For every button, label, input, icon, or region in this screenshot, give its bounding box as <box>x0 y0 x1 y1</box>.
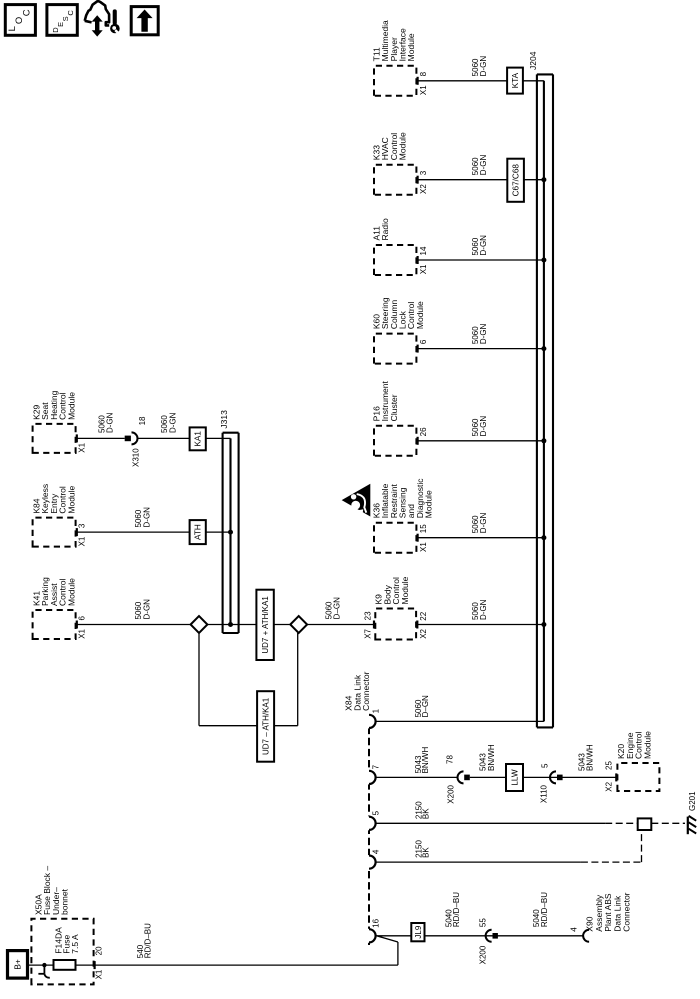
svg-text:X1: X1 <box>78 628 87 638</box>
svg-text:ATH: ATH <box>194 524 203 540</box>
svg-text:X2: X2 <box>419 184 428 194</box>
svg-text:BK: BK <box>422 847 431 858</box>
svg-text:18: 18 <box>138 416 147 425</box>
svg-text:X200: X200 <box>447 784 456 803</box>
svg-text:Module: Module <box>415 301 425 329</box>
svg-text:15: 15 <box>419 524 428 533</box>
svg-text:BN/WH: BN/WH <box>586 744 595 771</box>
svg-text:BN/WH: BN/WH <box>421 747 430 774</box>
svg-text:X1: X1 <box>78 536 87 546</box>
svg-text:D-GN: D-GN <box>479 323 488 344</box>
svg-text:C67/C68: C67/C68 <box>512 164 521 197</box>
svg-text:X2: X2 <box>605 781 614 791</box>
svg-text:D-GN: D-GN <box>479 235 488 256</box>
svg-text:D-GN: D-GN <box>479 155 488 176</box>
svg-text:X110: X110 <box>540 784 549 803</box>
svg-text:KTA: KTA <box>511 72 520 88</box>
svg-text:B+: B+ <box>13 959 23 970</box>
svg-text:4: 4 <box>570 927 579 932</box>
svg-text:KA1: KA1 <box>194 431 203 447</box>
svg-text:D–GN: D–GN <box>333 597 342 619</box>
svg-text:Radio: Radio <box>380 218 390 240</box>
svg-text:D-GN: D-GN <box>479 416 488 437</box>
svg-text:Cluster: Cluster <box>389 394 399 421</box>
svg-text:J313: J313 <box>219 410 229 429</box>
svg-text:Module: Module <box>424 490 434 518</box>
svg-text:X1: X1 <box>419 85 428 95</box>
svg-text:X310: X310 <box>132 448 141 467</box>
svg-text:Module: Module <box>66 485 76 513</box>
svg-text:Module: Module <box>66 578 76 606</box>
svg-text:X1: X1 <box>78 442 87 452</box>
svg-text:D–GN: D–GN <box>421 695 430 717</box>
svg-text:C: C <box>21 9 32 16</box>
svg-text:78: 78 <box>446 755 455 764</box>
svg-text:7.5 A: 7.5 A <box>70 934 80 954</box>
svg-text:J204: J204 <box>528 51 538 70</box>
svg-text:Connector: Connector <box>622 892 632 931</box>
svg-text:E: E <box>56 22 65 27</box>
svg-text:D-GN: D-GN <box>143 599 152 620</box>
svg-text:O: O <box>14 17 25 24</box>
svg-text:D-GN: D-GN <box>479 599 488 620</box>
svg-text:G201: G201 <box>688 791 697 811</box>
svg-text:D-GN: D-GN <box>479 56 488 77</box>
svg-text:Module: Module <box>406 33 416 61</box>
svg-text:6: 6 <box>419 339 428 344</box>
svg-text:S: S <box>61 16 70 21</box>
svg-text:20: 20 <box>94 946 103 955</box>
svg-text:16: 16 <box>372 918 381 927</box>
svg-text:X1: X1 <box>419 264 428 274</box>
svg-text:D-GN: D-GN <box>169 412 178 433</box>
svg-text:6: 6 <box>78 616 87 621</box>
svg-text:X7: X7 <box>364 628 373 638</box>
svg-text:25: 25 <box>605 761 614 770</box>
svg-text:3: 3 <box>78 523 87 528</box>
svg-text:Module: Module <box>66 392 76 420</box>
svg-text:UD7 – ATH/KA1: UD7 – ATH/KA1 <box>262 697 271 755</box>
svg-text:3: 3 <box>419 170 428 175</box>
svg-text:RD/D–BU: RD/D–BU <box>452 892 461 927</box>
svg-text:Module: Module <box>642 731 652 759</box>
svg-text:55: 55 <box>478 918 487 927</box>
svg-text:BN/WH: BN/WH <box>487 744 496 771</box>
svg-text:7: 7 <box>372 764 381 769</box>
svg-text:LLW: LLW <box>511 769 520 785</box>
svg-text:23: 23 <box>364 611 373 620</box>
svg-text:X200: X200 <box>478 945 487 964</box>
svg-text:D-GN: D-GN <box>479 513 488 534</box>
svg-text:Connector: Connector <box>361 671 371 710</box>
svg-text:8: 8 <box>419 71 428 76</box>
svg-text:D-GN: D-GN <box>106 412 115 433</box>
svg-text:14: 14 <box>419 246 428 255</box>
svg-text:BK: BK <box>422 808 431 819</box>
svg-text:RD/D–BU: RD/D–BU <box>540 892 549 927</box>
svg-text:Module: Module <box>400 576 410 604</box>
svg-text:UD7 + ATH/KA1: UD7 + ATH/KA1 <box>261 596 270 654</box>
svg-text:RD/D–BU: RD/D–BU <box>143 923 152 958</box>
svg-text:5: 5 <box>541 763 550 768</box>
svg-text:1: 1 <box>372 708 381 713</box>
svg-text:5: 5 <box>372 810 381 815</box>
svg-text:X1: X1 <box>94 969 103 979</box>
svg-text:D-GN: D-GN <box>143 507 152 528</box>
svg-text:bonnet: bonnet <box>60 888 70 915</box>
svg-text:26: 26 <box>419 427 428 436</box>
svg-text:22: 22 <box>419 611 428 620</box>
svg-text:JL9: JL9 <box>414 925 423 938</box>
svg-text:4: 4 <box>372 849 381 854</box>
svg-text:X1: X1 <box>419 542 428 552</box>
svg-text:L: L <box>7 26 18 31</box>
svg-text:Module: Module <box>398 132 408 160</box>
svg-text:X2: X2 <box>419 628 428 638</box>
svg-text:C: C <box>66 10 75 16</box>
